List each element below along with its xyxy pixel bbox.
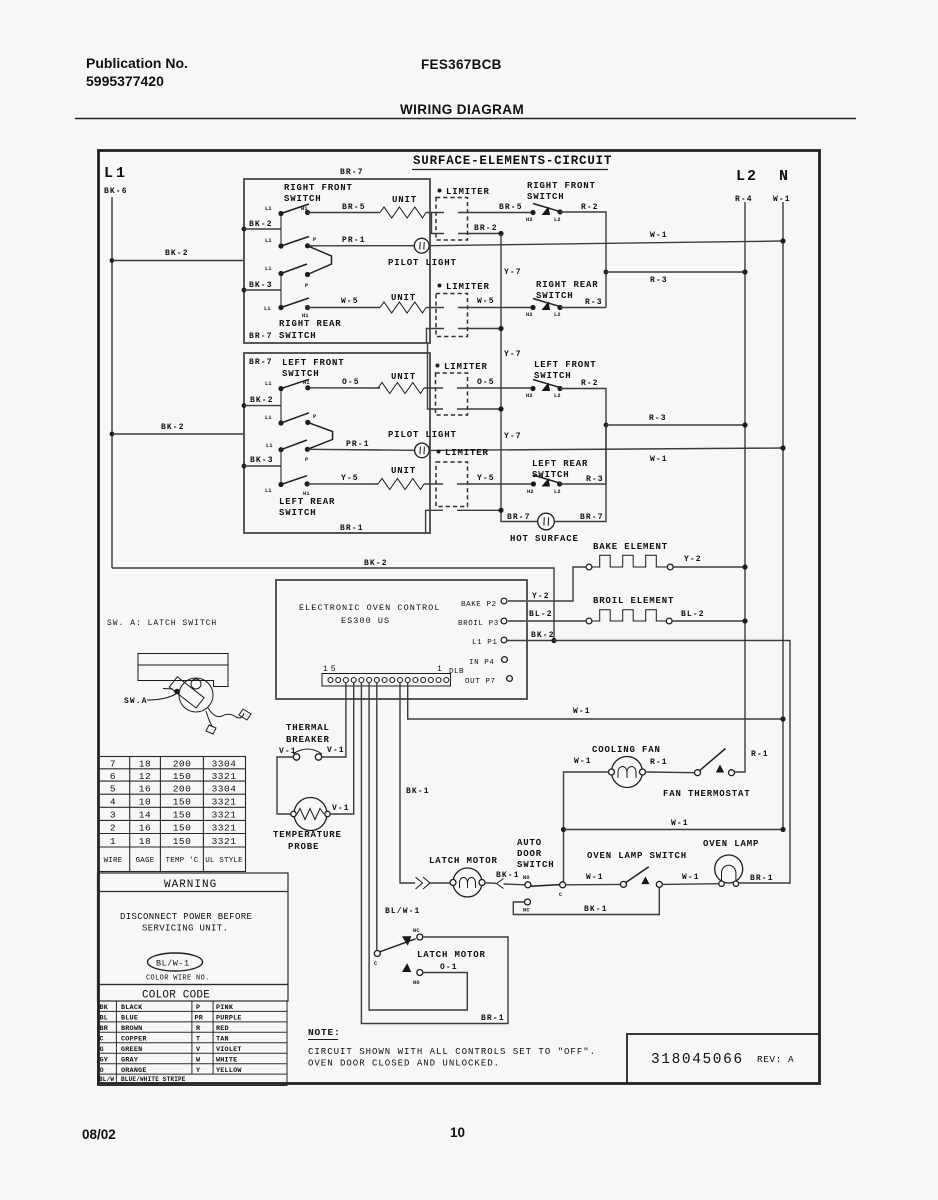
part number box [627,1034,820,1084]
node: W-1 junction on N bus (mid) [780,716,785,721]
node: BK-2 junction at EOC L1 P1 wire [507,640,554,642]
svg-text:W: W [196,1057,201,1065]
svg-text:WARNING: WARNING [164,879,217,891]
wire fan to thermostat [646,771,695,774]
connector chevron right of latch motor [485,882,496,885]
svg-text:V-1: V-1 [327,746,345,755]
svg-text:R-3: R-3 [649,414,667,423]
node: R-3 row2 junction on L2 bus [742,422,747,427]
node: R-3 junction on L2 bus [742,269,747,274]
element switch row A2: H2 terminal [530,386,535,391]
svg-text:L2: L2 [554,393,561,399]
svg-text:BL/W-1: BL/W-1 [156,959,190,969]
wire broil element to EOC P3 [508,620,586,622]
switch pole row B: blade [281,237,309,247]
wire W-1 pilot row to N bus [429,241,783,246]
node: L1 bus junction 2 [110,432,115,437]
svg-text:16: 16 [139,784,151,795]
lower latch motor switch: C terminal [376,682,378,951]
svg-text:18: 18 [139,759,151,770]
svg-text:150: 150 [173,836,192,847]
node: W-1 g2 junction on N bus [780,445,785,450]
element switch row D2: blade and cam [533,475,560,483]
svg-text:FES367BCB: FES367BCB [421,57,502,72]
svg-text:PR: PR [195,1015,204,1023]
wire L1 P1 BK-2 to oven lamp (right vertical) [554,641,790,884]
svg-text:H2: H2 [526,393,533,399]
lower latch switch NC terminal [417,934,423,940]
node: W-1 junction on N bus [780,238,785,243]
svg-text:LEFT FRONT: LEFT FRONT [282,358,345,368]
switch pole row C2: P terminal [305,447,310,452]
svg-text:Y-2: Y-2 [684,555,702,564]
svg-text:PROBE: PROBE [288,842,319,852]
svg-text:L1: L1 [265,415,272,421]
wire R-3 row 1 to L2 bus [606,271,745,273]
wire: L1 riser row A-B [280,214,282,246]
svg-text:L1: L1 [266,443,273,449]
svg-text:UNIT: UNIT [391,293,416,303]
svg-text:LEFT REAR: LEFT REAR [279,497,335,507]
switch pole row B2: L1 terminal [278,420,283,425]
limiter F4 bottom wire to Y-7 bus [426,510,443,533]
svg-text:SW.A: SW.A [124,697,148,706]
svg-text:C: C [559,892,562,898]
svg-text:OVEN DOOR CLOSED AND UNLOCKED.: OVEN DOOR CLOSED AND UNLOCKED. [308,1059,500,1069]
svg-text:BLACK: BLACK [121,1004,143,1012]
svg-text:SURFACE-ELEMENTS-CIRCUIT: SURFACE-ELEMENTS-CIRCUIT [413,154,612,168]
svg-text:BK: BK [100,1004,109,1012]
wire: N bus vertical [782,202,784,830]
svg-text:V-1: V-1 [332,804,350,813]
svg-text:COLOR WIRE NO.: COLOR WIRE NO. [146,975,210,983]
element switch row A: L2 terminal [557,209,562,214]
svg-text:2: 2 [110,823,116,834]
node: broil junction on L2 bus [742,618,747,623]
element switch row D: H2 terminal [530,305,535,310]
svg-text:15: 15 [323,665,339,674]
svg-text:4: 4 [110,797,116,808]
wire H1 row D2 to unit, Y-5 [307,483,378,485]
svg-text:PINK: PINK [216,1004,234,1012]
svg-text:SWITCH: SWITCH [284,194,322,204]
svg-text:NO: NO [523,875,530,881]
element switch row D: L2 terminal [557,305,562,310]
pilot light PL1 [414,238,429,253]
svg-text:RED: RED [216,1025,229,1033]
wire H1 row D to unit, W-5 [308,307,381,309]
svg-text:3: 3 [110,810,116,821]
wire R-3 from L2 row D2 up to R-3 row [560,425,606,484]
wire oven lamp switch to lamp [662,883,719,886]
switch pole row B2: P terminal [305,420,310,425]
svg-text:BROIL P3: BROIL P3 [458,620,499,628]
svg-text:Y: Y [196,1067,201,1075]
svg-text:3304: 3304 [212,759,237,770]
svg-text:GY: GY [100,1057,109,1065]
svg-text:R: R [196,1025,201,1033]
wire: BK-2 entry g2 [244,405,281,407]
svg-text:BK-2: BK-2 [364,559,388,568]
limiter F3 dashed box [436,373,468,415]
svg-text:NC: NC [413,928,420,934]
svg-text:10: 10 [450,1125,465,1140]
limiter F1 dashed box [436,198,468,241]
limiter F3 bottom wire to Y-7 bus [428,343,444,409]
svg-text:16: 16 [139,823,151,834]
wire: BK-2 entry to L1 riser [244,228,281,230]
pilot light PL2 [415,443,430,458]
node: R-2/R-3 junction g2 [604,423,609,428]
svg-text:H1: H1 [301,206,308,212]
svg-text:OVEN LAMP: OVEN LAMP [703,839,759,849]
svg-text:WIRE: WIRE [104,857,123,865]
svg-text:1: 1 [116,165,125,182]
wire breaker to temperature probe [277,757,293,814]
lower latch switch NO terminal [417,970,423,976]
svg-text:PILOT LIGHT: PILOT LIGHT [388,258,457,268]
svg-text:W-1: W-1 [773,195,791,204]
svg-text:BK-1: BK-1 [496,871,520,880]
svg-text:TEMP 'C: TEMP 'C [166,857,199,865]
switch pole row D: H1 terminal [305,305,310,310]
svg-text:Y-5: Y-5 [477,474,495,483]
svg-text:ELECTRONIC OVEN CONTROL: ELECTRONIC OVEN CONTROL [299,603,440,613]
svg-text:SERVICING UNIT.: SERVICING UNIT. [142,924,228,934]
switch pole row C2: L1 terminal [278,447,283,452]
svg-text:UNIT: UNIT [391,372,416,382]
wire: Z-link g2 [307,422,332,449]
svg-text:BR-1: BR-1 [340,524,364,533]
svg-text:H2: H2 [527,489,534,495]
wire broil element to L2 bus, BL-2 [672,620,745,622]
svg-text:BK-1: BK-1 [406,787,430,796]
switch pole row A2: L1 terminal [278,386,283,391]
svg-text:L2: L2 [554,217,561,223]
svg-text:Y-7: Y-7 [504,268,522,277]
svg-text:W-1: W-1 [650,231,668,240]
svg-text:BL/W: BL/W [99,1076,114,1083]
wire cooling fan branch from auto door C up [564,772,609,885]
svg-text:CIRCUIT SHOWN WITH ALL CONTROL: CIRCUIT SHOWN WITH ALL CONTROLS SET TO "… [308,1047,596,1057]
limiter F4 dashed box [436,462,468,507]
svg-text:C: C [374,961,377,967]
wire R-3 from L2 row D [560,307,606,309]
switch pole row D2: H1 terminal [305,481,310,486]
svg-text:SWITCH: SWITCH [517,860,555,870]
switch pole row D: L1 terminal [278,305,283,310]
switch pole row B2: blade [281,413,309,423]
svg-text:BR-5: BR-5 [499,203,523,212]
svg-text:318045066: 318045066 [651,1052,744,1068]
svg-text:REV: A: REV: A [757,1054,794,1065]
wire BK-1 from EOC pin to latch motor [400,682,415,883]
svg-text:1: 1 [437,665,442,674]
svg-text:BK-2: BK-2 [249,220,273,229]
svg-text:L1: L1 [265,488,272,494]
svg-text:WHITE: WHITE [216,1057,237,1065]
node: bus dot BK-3 g2 [242,464,247,469]
svg-text:OVEN LAMP SWITCH: OVEN LAMP SWITCH [587,851,687,861]
svg-text:SWITCH: SWITCH [534,371,572,381]
svg-text:P: P [196,1004,200,1012]
svg-text:14: 14 [139,810,151,821]
element switch row A2: blade and cam [533,380,561,388]
node: bus dot BK-2 g2 [242,403,247,408]
wire: R-4 / L2 bus vertical [734,202,746,772]
svg-text:SW. A: LATCH SWITCH: SW. A: LATCH SWITCH [107,619,217,628]
switch pole row B: L1 terminal [278,243,283,248]
wire PR-1 to pilot light [308,245,415,247]
svg-text:FAN THERMOSTAT: FAN THERMOSTAT [663,789,751,799]
svg-text:3321: 3321 [212,836,237,847]
svg-text:W-1: W-1 [573,707,591,716]
svg-text:BLUE: BLUE [121,1015,138,1023]
element switch row D: blade and cam [533,299,561,307]
svg-text:BR-7: BR-7 [580,513,604,522]
svg-text:BL: BL [100,1015,109,1023]
node: Y-7 bus top junction [498,231,503,236]
wire W-1 from EOC pin to N bus [408,682,783,719]
wire auto door C to oven lamp switch [566,883,621,885]
svg-text:L1: L1 [265,381,272,387]
wire: Y-7 bus vertical [501,234,538,522]
svg-text:SWITCH: SWITCH [282,369,320,379]
EOC connector strip [322,674,451,687]
element switch row D2: L2 terminal [557,481,562,486]
svg-text:Y-5: Y-5 [341,474,359,483]
switch pole row D: blade [281,298,309,308]
svg-text:BR-7: BR-7 [340,168,364,177]
node: bus dot BK-2 g1 [242,227,247,232]
svg-text:12: 12 [139,771,151,782]
svg-text:GAGE: GAGE [136,857,155,865]
wire: L1 riser row C-D g2 [280,450,282,485]
svg-text:P: P [313,237,316,243]
svg-text:DISCONNECT POWER BEFORE: DISCONNECT POWER BEFORE [120,912,252,922]
switch pole row A: H1 terminal [305,210,310,215]
svg-text:GRAY: GRAY [121,1057,139,1065]
switch pole row D2: blade [281,476,307,485]
svg-text:NOTE:: NOTE: [308,1027,341,1038]
limiter F3 through wire [424,387,443,389]
svg-text:3321: 3321 [212,810,237,821]
svg-text:BK-3: BK-3 [250,456,274,465]
svg-text:6: 6 [110,771,116,782]
svg-text:BK-1: BK-1 [584,905,608,914]
node: W-1 loop junction on N bus [780,827,785,832]
connector chevrons left of latch motor [416,877,423,889]
svg-text:3321: 3321 [212,797,237,808]
svg-text:O-5: O-5 [477,378,495,387]
switch pole row A: L1 terminal [278,211,283,216]
switch pole row C2: blade [281,440,307,450]
node: W-1 fan loop junction [561,827,566,832]
svg-text:3321: 3321 [212,823,237,834]
group 2 switch box (left front / left rear) [244,353,430,533]
svg-text:BK-2: BK-2 [161,423,185,432]
lower latch switch blade C to NC [380,939,416,952]
svg-text:R-3: R-3 [586,475,604,484]
svg-text:H2: H2 [526,217,533,223]
svg-text:NC: NC [523,908,530,914]
svg-text:LIMITER: LIMITER [445,448,489,458]
svg-text:H1: H1 [303,380,310,386]
wire BK-2 row2 horizontal [112,433,244,435]
limiter F4 through wire [424,483,443,485]
fan thermostat [695,770,701,776]
svg-text:3304: 3304 [212,784,237,795]
svg-text:SWITCH: SWITCH [532,470,570,480]
svg-text:150: 150 [173,771,192,782]
svg-text:R-1: R-1 [650,758,668,767]
svg-text:L2: L2 [554,489,561,495]
wire W-1 fan loop to N bus [564,829,784,831]
element switch row A2: L2 terminal [557,386,562,391]
limiter F2 bottom wire to Y-7 bus [427,329,445,344]
svg-text:R-2: R-2 [581,203,599,212]
svg-text:BR-7: BR-7 [249,358,273,367]
wire: main BK-2 feed to EOC (left bus down and right) [112,568,554,641]
svg-text:W-5: W-5 [341,297,359,306]
warning box [98,873,289,985]
wire bake element to L2 bus, Y-2 [673,566,745,568]
svg-text:150: 150 [173,797,192,808]
wire: L1 bus vertical [111,197,113,568]
svg-text:THERMAL: THERMAL [286,723,330,733]
node: L1 bus junction 1 [110,258,115,263]
svg-text:P: P [305,457,308,463]
svg-text:PURPLE: PURPLE [216,1015,242,1023]
svg-text:200: 200 [173,784,192,795]
svg-text:SWITCH: SWITCH [279,331,317,341]
svg-text:RIGHT REAR: RIGHT REAR [536,280,599,290]
svg-text:O-5: O-5 [342,378,360,387]
svg-text:BR-2: BR-2 [474,224,498,233]
svg-text:YELLOW: YELLOW [216,1067,242,1075]
svg-text:L1: L1 [265,206,272,212]
svg-text:BLUE/WHITE STRIPE: BLUE/WHITE STRIPE [121,1076,186,1083]
svg-text:BAKE P2: BAKE P2 [461,601,497,609]
svg-text:P: P [313,414,316,420]
svg-text:LATCH MOTOR: LATCH MOTOR [417,950,486,960]
svg-text:PR-1: PR-1 [346,440,370,449]
svg-text:LIMITER: LIMITER [446,187,490,197]
element switch row A: H2 terminal [530,210,535,215]
switch pole row A: blade [281,204,309,214]
svg-text:BL-2: BL-2 [529,610,553,619]
node: F2 junction on Y-7 bus [498,326,503,331]
svg-text:V-1: V-1 [279,747,297,756]
svg-text:LEFT FRONT: LEFT FRONT [534,360,597,370]
limiter F1 bottom wire BR-2 to Y-7 bus [432,213,445,234]
svg-text:R-4: R-4 [735,195,753,204]
svg-text:RIGHT FRONT: RIGHT FRONT [284,183,353,193]
limiter F1 through wire [426,212,444,214]
node: bus dot BK-3 g1 [242,288,247,293]
svg-text:RIGHT REAR: RIGHT REAR [279,319,342,329]
svg-text:200: 200 [173,759,192,770]
switch pole row C: blade [281,264,307,274]
svg-text:08/02: 08/02 [82,1127,116,1142]
svg-text:LIMITER: LIMITER [444,362,488,372]
svg-text:COLOR CODE: COLOR CODE [142,990,210,1002]
svg-text:IN P4: IN P4 [469,659,495,667]
svg-text:T: T [196,1036,200,1044]
wire PR-1 g2 to pilot light [307,449,414,450]
svg-text:LEFT REAR: LEFT REAR [532,459,588,469]
svg-text:R-1: R-1 [751,750,769,759]
svg-text:TAN: TAN [216,1036,229,1044]
svg-text:C: C [100,1036,104,1044]
svg-text:ES300 US: ES300 US [341,616,390,626]
wire breaker to EOC pin [322,682,346,757]
group 1 switch box (right front / right rear) [244,179,430,343]
svg-text:PILOT LIGHT: PILOT LIGHT [388,430,457,440]
main diagram border [99,151,820,1084]
svg-text:L1 P1: L1 P1 [472,639,498,647]
svg-text:LIMITER: LIMITER [446,282,490,292]
svg-text:5: 5 [110,784,116,795]
svg-text:P: P [305,283,308,289]
svg-text:BROIL ELEMENT: BROIL ELEMENT [593,596,674,606]
wire R-2 from L2 down to R-3 row [560,212,606,308]
svg-text:Y-7: Y-7 [504,350,522,359]
svg-text:BREAKER: BREAKER [286,735,330,745]
auto door switch NC contact [525,899,531,905]
svg-text:SWITCH: SWITCH [279,508,317,518]
svg-text:BK-6: BK-6 [104,187,128,196]
wire: L1 riser row A-B g2 [280,389,282,423]
wire loop from EOC to NO (inner rectangle) [369,682,467,1010]
svg-text:ORANGE: ORANGE [121,1067,147,1075]
svg-text:LATCH MOTOR: LATCH MOTOR [429,856,498,866]
svg-text:SWITCH: SWITCH [527,192,565,202]
svg-text:O-1: O-1 [440,963,458,972]
wire H1 to unit, O-5 [308,387,380,389]
svg-text:BAKE ELEMENT: BAKE ELEMENT [593,542,668,552]
svg-text:COOLING FAN: COOLING FAN [592,745,661,755]
svg-text:VIOLET: VIOLET [216,1046,242,1054]
svg-text:W-1: W-1 [682,873,700,882]
svg-text:GREEN: GREEN [121,1046,142,1054]
svg-text:UNIT: UNIT [392,195,417,205]
element switch row A: blade and cam [533,204,561,212]
header rule [75,118,856,120]
svg-text:BL/W-1: BL/W-1 [385,907,420,916]
svg-text:BR-7: BR-7 [507,513,531,522]
svg-text:WIRING DIAGRAM: WIRING DIAGRAM [400,102,524,117]
color code table [98,985,289,1002]
wire H1 to unit, BR-5 [308,212,381,214]
electronic oven control box [276,580,527,699]
svg-text:COPPER: COPPER [121,1036,147,1044]
svg-text:3321: 3321 [212,771,237,782]
svg-text:DLB: DLB [449,668,464,676]
svg-text:HOT SURFACE: HOT SURFACE [510,534,579,544]
wire: BK-3 entry g2 [244,465,281,467]
svg-text:UL STYLE: UL STYLE [205,857,243,865]
svg-text:R-3: R-3 [650,276,668,285]
svg-text:150: 150 [173,823,192,834]
wire BK-2 row1 horizontal [112,260,244,262]
svg-text:W-1: W-1 [650,455,668,464]
svg-text:AUTO: AUTO [517,838,542,848]
wire loop from EOC to NC (outer rectangle) [361,682,508,1024]
switch pole row A2: blade [281,379,309,388]
svg-text:PR-1: PR-1 [342,236,366,245]
svg-text:SWITCH: SWITCH [536,291,574,301]
